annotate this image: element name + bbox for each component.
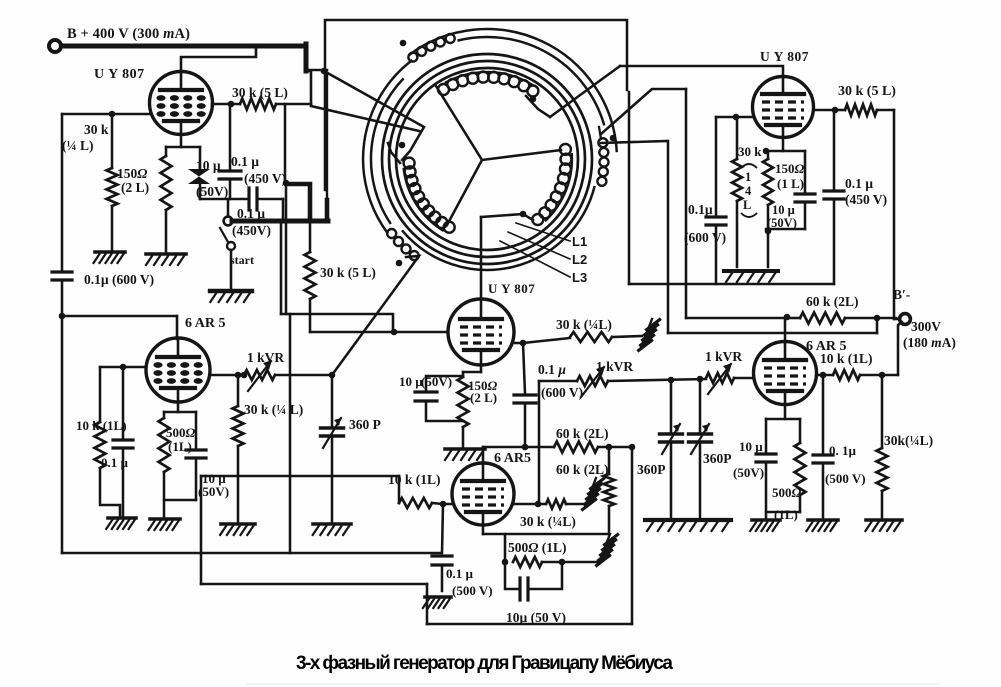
wire VR1 to junction xyxy=(275,374,332,377)
node R8 right xyxy=(874,315,881,322)
svg-text:0.1µ (600 V): 0.1µ (600 V) xyxy=(84,272,154,287)
ground G4 xyxy=(106,518,136,529)
spoke to L1 xyxy=(436,86,482,160)
node T5 grid xyxy=(440,501,447,508)
svg-text:B′-: B′- xyxy=(893,287,910,302)
svg-text:L3: L3 xyxy=(572,270,587,285)
label B+400V xyxy=(67,26,190,42)
resistor R2 30k quarterL xyxy=(107,114,118,251)
toroid outer arc top2 xyxy=(458,37,605,125)
wire T5 top pin xyxy=(482,447,485,463)
label C21 xyxy=(506,610,566,625)
label R10 xyxy=(820,351,873,366)
label C15 500V xyxy=(825,471,866,486)
svg-text:4: 4 xyxy=(745,184,752,198)
label C20a xyxy=(538,362,566,377)
label C11 value xyxy=(845,176,873,191)
svg-text:300V: 300V xyxy=(911,319,941,334)
resistor R21 500ohm 1L xyxy=(513,557,600,567)
svg-text:3-х фазный генератор для Грави: 3-х фазный генератор для Гравицапу Мёбиу… xyxy=(296,653,673,674)
svg-text:150Ω: 150Ω xyxy=(775,161,805,176)
label R5 q1 xyxy=(745,170,751,184)
node Lc dot xyxy=(396,260,403,267)
wire y624 xyxy=(427,623,632,626)
label C17a xyxy=(202,471,226,486)
label C2 450V xyxy=(244,171,286,186)
node grid T2 xyxy=(391,329,398,336)
label C9 600V xyxy=(684,230,726,245)
wire bus up to d1 xyxy=(325,73,330,221)
label L2 xyxy=(572,252,587,267)
label C19 xyxy=(399,374,452,389)
node grid T1 xyxy=(109,111,116,118)
label VR2 xyxy=(596,359,633,374)
svg-text:30 k (5 L): 30 k (5 L) xyxy=(838,84,896,99)
capacitor C17 10u xyxy=(164,412,206,500)
svg-text:0.1 µ: 0.1 µ xyxy=(231,154,259,169)
svg-text:(2 L): (2 L) xyxy=(121,180,149,195)
capacitor C1 10u electrolytic xyxy=(188,147,210,199)
label C11 450V xyxy=(845,192,887,207)
svg-text:(2 L): (2 L) xyxy=(470,390,497,405)
capacitor C16 0.1u xyxy=(113,367,133,516)
resistor R8 60k2L top xyxy=(787,313,896,324)
node Lb dot xyxy=(610,135,617,142)
label C18 xyxy=(349,417,381,432)
tube U1 UY807 top-left xyxy=(150,72,213,135)
svg-text:360P: 360P xyxy=(703,451,732,466)
node diag dot xyxy=(520,211,527,218)
label C10 10u xyxy=(772,203,795,217)
wire y141 link xyxy=(601,141,668,333)
svg-text:L2: L2 xyxy=(572,252,587,267)
ground G3 start xyxy=(210,291,252,302)
wire x427 xyxy=(426,584,429,624)
spoke to L2 xyxy=(447,160,482,225)
wire T3 top feed xyxy=(550,66,783,117)
coil L2 inner left xyxy=(404,158,455,233)
terminal 300V xyxy=(900,314,911,325)
resistor R16 30k quarter mid xyxy=(523,332,642,343)
wire plate-grid coupling x539 xyxy=(538,381,541,504)
ground G1 xyxy=(94,252,126,263)
capacitor C21 10u50V loop xyxy=(505,562,562,600)
node x632 top xyxy=(629,444,636,451)
label R4 xyxy=(320,265,376,280)
label R2 quarter xyxy=(62,138,94,153)
node R8 left xyxy=(784,314,791,321)
label R6 1L xyxy=(777,176,804,191)
svg-text:(1 L): (1 L) xyxy=(777,176,804,191)
node R11 top xyxy=(879,372,886,379)
box outline xyxy=(325,20,627,190)
wire T4 grid row xyxy=(100,366,146,369)
label 360P right xyxy=(703,451,732,466)
node C12 top xyxy=(668,377,675,384)
wire row y333 xyxy=(668,318,877,333)
svg-text:60 k (2L): 60 k (2L) xyxy=(806,294,859,309)
svg-text:(600 V): (600 V) xyxy=(541,385,583,400)
wire L2 top link xyxy=(388,143,400,163)
label R8 xyxy=(806,294,859,309)
svg-text:6 AR 5: 6 AR 5 xyxy=(185,316,225,331)
resistor R12 10k1L xyxy=(95,367,121,516)
coil Lb outer right xyxy=(597,127,608,186)
svg-text:B + 400 V (300 mA): B + 400 V (300 mA) xyxy=(67,26,190,42)
caption xyxy=(296,653,673,674)
label 360P left xyxy=(637,462,666,477)
tube U2 UY807 center xyxy=(448,299,514,365)
label R16 xyxy=(556,317,612,332)
node R7 left xyxy=(832,107,839,114)
node VR1 left xyxy=(241,372,248,379)
ground G7 xyxy=(313,524,351,535)
scan edge bottom xyxy=(245,683,940,685)
ground G14 xyxy=(807,520,839,531)
node R6 bottom xyxy=(765,228,772,235)
svg-text:0.1 µ: 0.1 µ xyxy=(538,362,566,377)
wire rail x686 xyxy=(685,89,688,318)
label R12 xyxy=(76,418,127,433)
resistor R10 10k1L xyxy=(833,370,898,380)
svg-text:0.1 µ: 0.1 µ xyxy=(101,455,129,470)
svg-text:500Ω: 500Ω xyxy=(166,425,196,440)
label 300V xyxy=(911,319,941,334)
wire left rail x62 upper xyxy=(61,114,64,272)
svg-text:360 P: 360 P xyxy=(349,417,381,432)
toroid outer arc top xyxy=(409,29,617,152)
wire T2 plate xyxy=(515,342,523,345)
varres VR2 1kVR xyxy=(577,366,608,397)
svg-text:(50V): (50V) xyxy=(767,216,797,230)
svg-text:(50V): (50V) xyxy=(196,184,228,199)
label C15 value xyxy=(829,443,857,458)
capacitor C2 0.1u450V xyxy=(219,104,241,199)
label R9 500 xyxy=(772,485,802,500)
node plate T2 xyxy=(520,340,527,347)
svg-text:1 kVR: 1 kVR xyxy=(247,350,284,365)
node R14 top xyxy=(235,372,242,379)
wire b2 winding right link xyxy=(601,89,686,134)
capacitor C15 0.1u500V xyxy=(813,375,833,518)
svg-text:U Y 807: U Y 807 xyxy=(488,281,535,296)
toroid ring1 xyxy=(382,54,592,264)
svg-text:10 k (1L): 10 k (1L) xyxy=(820,351,873,366)
wire grid row T1 xyxy=(62,113,150,116)
capacitor C13 360P b xyxy=(689,379,712,518)
svg-text:start: start xyxy=(230,253,254,267)
label R18 xyxy=(556,462,609,477)
svg-text:(50V): (50V) xyxy=(421,374,452,389)
svg-text:150Ω: 150Ω xyxy=(117,166,147,181)
resistor R17 60k2L h xyxy=(483,442,632,453)
svg-text:10µ (50 V): 10µ (50 V) xyxy=(506,610,566,625)
wire T5 cathode row xyxy=(483,525,609,534)
label R5 q2 xyxy=(745,184,752,198)
label R7 xyxy=(838,84,896,99)
wire rail x629 xyxy=(628,92,631,284)
resistor R11 30k quarter right xyxy=(877,375,888,518)
toroid ring3 xyxy=(396,68,578,250)
label VR1 xyxy=(247,350,284,365)
sground S1 xyxy=(639,319,660,350)
label C22b xyxy=(452,583,493,598)
ground G16 wide xyxy=(724,271,778,282)
label C1 10u xyxy=(196,158,221,173)
label C14 50V xyxy=(733,465,764,480)
label R13a xyxy=(166,425,196,440)
label R19 xyxy=(388,472,441,487)
node VR3 left xyxy=(697,376,704,383)
svg-text:0.1µ: 0.1µ xyxy=(688,202,713,217)
capacitor C9 0.1u600V right xyxy=(706,117,726,284)
label U2 UY807 xyxy=(488,281,535,296)
node L2 top xyxy=(399,142,406,149)
resistor R19 10k1L bottom xyxy=(399,476,443,508)
svg-text:(600 V): (600 V) xyxy=(684,230,726,245)
wire T2 grid row xyxy=(310,331,448,334)
resistor R14 30k quarter xyxy=(233,375,244,522)
wire T2 cathode xyxy=(463,365,481,372)
node plate T6 xyxy=(820,372,827,379)
label R13b xyxy=(168,439,192,454)
wire heavy diagonal to 1kVR xyxy=(332,256,419,375)
wire T5 grid xyxy=(443,503,452,506)
node T3 cathode xyxy=(763,148,770,155)
varres VR1 1kVR xyxy=(244,360,275,391)
label C1 50V xyxy=(196,184,228,199)
switch start xyxy=(220,199,235,289)
resistor R15 150ohm 2L xyxy=(458,372,469,447)
leader L1 xyxy=(516,223,570,241)
sground S2 xyxy=(583,478,604,509)
svg-text:(500 V): (500 V) xyxy=(825,471,866,486)
wire 500ohm row xyxy=(504,534,507,562)
label C16 xyxy=(101,455,129,470)
svg-text:6 AR5: 6 AR5 xyxy=(494,451,531,466)
terminal B+ xyxy=(49,40,61,52)
wire rail x286 xyxy=(284,104,287,183)
svg-text:30 k (5 L): 30 k (5 L) xyxy=(320,265,376,280)
svg-text:30 k (¼L): 30 k (¼L) xyxy=(520,514,576,529)
resistor R7 30k5L right xyxy=(814,105,894,116)
svg-text:10 µ: 10 µ xyxy=(739,439,763,454)
toroid outer arc left2 xyxy=(371,78,404,224)
label R6 150 xyxy=(775,161,805,176)
svg-text:(450 V): (450 V) xyxy=(244,171,286,186)
wire T3 cathode xyxy=(766,138,805,151)
capacitor C22 0.1u500V xyxy=(432,504,452,591)
label L1 xyxy=(572,234,587,249)
wire x632 xyxy=(631,447,634,624)
resistor R4 30k5L vertical xyxy=(305,221,316,332)
svg-text:30 k: 30 k xyxy=(84,122,109,137)
ground G15 xyxy=(865,520,902,531)
wire B+ elbow to plate rail xyxy=(306,71,311,104)
svg-text:500Ω: 500Ω xyxy=(772,485,802,500)
wire heavy bus elbow xyxy=(287,184,310,221)
wire up to 300V xyxy=(898,322,902,375)
wire d1 diagonal xyxy=(324,71,424,160)
svg-text:(180 mA): (180 mA) xyxy=(903,335,956,350)
wire T2 pin to toroid xyxy=(481,214,533,299)
wire T6 cathode xyxy=(766,404,800,419)
svg-text:(500 V): (500 V) xyxy=(452,583,493,598)
node C20 bottom xyxy=(522,444,529,451)
wire B- rail xyxy=(894,110,899,319)
wire 1kVR row left xyxy=(539,380,577,383)
label U4 6AR5 xyxy=(185,316,225,331)
node x286 y183 xyxy=(283,180,290,187)
wire row y314 xyxy=(281,314,393,332)
label R15b xyxy=(470,390,497,405)
ground G8 xyxy=(445,449,485,460)
svg-text:1: 1 xyxy=(745,170,751,184)
svg-text:1 kVR: 1 kVR xyxy=(596,359,633,374)
wire y316 row xyxy=(62,316,177,339)
label C10 50V xyxy=(767,216,797,230)
label C3 450V xyxy=(232,223,271,238)
label U5 6AR5 xyxy=(494,451,531,466)
svg-text:10 µ: 10 µ xyxy=(399,374,423,389)
coil L1 inner top xyxy=(438,72,538,97)
ground G13 xyxy=(750,520,780,531)
wire T4 plate row xyxy=(210,374,244,377)
label R20 xyxy=(520,514,576,529)
wire x201 xyxy=(200,476,203,584)
svg-text:10 µ: 10 µ xyxy=(196,158,221,173)
label C3 value xyxy=(237,206,265,221)
svg-text:10 k (1L): 10 k (1L) xyxy=(76,418,127,433)
svg-text:(450V): (450V) xyxy=(232,223,271,238)
sground S3 xyxy=(597,534,618,565)
svg-text:30 k (¼L): 30 k (¼L) xyxy=(556,317,612,332)
label C20b xyxy=(541,385,583,400)
label U3 UY807 xyxy=(760,49,809,64)
label start xyxy=(230,253,254,267)
wire T6 plate row xyxy=(817,374,833,377)
wire y584 xyxy=(201,583,427,586)
label R11 xyxy=(884,433,933,448)
label R5 parens xyxy=(741,164,757,217)
label C8 xyxy=(84,272,154,287)
svg-text:30 k (5 L): 30 k (5 L) xyxy=(232,85,288,100)
label L3 xyxy=(572,270,587,285)
wire feedback y476 xyxy=(201,475,399,478)
resistor R18 60k2L v xyxy=(604,447,615,534)
node phase top xyxy=(400,40,407,47)
wire rail x281 xyxy=(280,221,283,314)
capacitor C10 10u50V xyxy=(766,151,815,229)
svg-text:L: L xyxy=(743,198,751,212)
label C17b xyxy=(198,484,229,499)
resistor R20 30k small xyxy=(514,500,586,509)
svg-text:U Y 807: U Y 807 xyxy=(94,67,145,82)
label U1 UY807 xyxy=(94,67,145,82)
wire rail x290 long xyxy=(289,314,292,553)
svg-text:0.1 µ: 0.1 µ xyxy=(845,176,873,191)
label R14 xyxy=(244,402,303,417)
wire d2 diagonal xyxy=(311,106,419,131)
tube U6 6AR5 right xyxy=(754,342,817,405)
capacitor C3 0.1u450V coupling xyxy=(200,188,283,219)
wire B- bus y284 xyxy=(629,283,834,286)
svg-text:60 k (2L): 60 k (2L) xyxy=(556,462,609,477)
toroid ring2 xyxy=(389,61,585,257)
node left rail y316 xyxy=(59,313,66,320)
node R20 left xyxy=(535,501,542,508)
label C9 value xyxy=(688,202,713,217)
svg-text:(50V): (50V) xyxy=(733,465,764,480)
wire heavy tank bus xyxy=(232,219,328,224)
svg-text:(¼ L): (¼ L) xyxy=(62,138,94,153)
svg-text:30 k (¼ L): 30 k (¼ L) xyxy=(244,402,303,417)
capacitor C19 10u50V xyxy=(415,376,463,421)
tube U4 6AR5 left xyxy=(146,338,210,402)
resistor R6 150ohm 1L xyxy=(763,152,773,267)
varres VR3 1kVR xyxy=(706,363,734,394)
wire rail x286 lower xyxy=(285,183,288,314)
tube U3 UY807 right xyxy=(753,77,814,138)
spoke to L3 xyxy=(482,150,561,160)
svg-text:60 k (2L): 60 k (2L) xyxy=(556,426,609,441)
node Rb left xyxy=(502,559,509,566)
tube U5 6AR5 bottom xyxy=(452,463,514,525)
svg-text:500Ω (1L): 500Ω (1L) xyxy=(508,540,566,555)
svg-text:0. 1µ: 0. 1µ xyxy=(829,443,857,458)
wire B+ to box xyxy=(306,69,327,72)
toroid outer arc left xyxy=(363,60,412,234)
node Rb right xyxy=(559,559,566,566)
svg-text:10 k (1L): 10 k (1L) xyxy=(388,472,441,487)
svg-text:L1: L1 xyxy=(572,234,587,249)
svg-text:(1L): (1L) xyxy=(168,439,192,454)
label R5 30k xyxy=(738,144,762,159)
label C22a xyxy=(446,566,474,581)
capacitor C12 360P a xyxy=(660,380,683,518)
capacitor C11 0.1u450V right xyxy=(824,110,844,284)
label R21 xyxy=(508,540,566,555)
label R5 q3 xyxy=(743,198,751,212)
svg-text:U Y 807: U Y 807 xyxy=(760,49,809,64)
wire VR2 to VR3 xyxy=(608,379,706,381)
node R17 right xyxy=(606,444,613,451)
label 180mA xyxy=(903,335,956,350)
capacitor C8 0.1u600V left xyxy=(52,272,72,553)
coil L3 inner right xyxy=(532,144,572,225)
wire top pin feed T1 xyxy=(181,46,256,72)
label U6 6AR5 xyxy=(806,339,846,354)
ground G5 xyxy=(149,519,181,530)
ground G2 xyxy=(146,254,186,265)
svg-text:(50V): (50V) xyxy=(198,484,229,499)
label B- xyxy=(893,287,910,302)
svg-text:1 kVR: 1 kVR xyxy=(705,349,742,364)
wire B+ bus heavy xyxy=(62,44,306,71)
ground G10 xyxy=(423,597,451,608)
capacitor C18 360P xyxy=(321,375,344,522)
wire row y318 xyxy=(686,317,787,320)
label R9 1L xyxy=(774,507,798,522)
svg-text:10 µ: 10 µ xyxy=(772,203,795,217)
label C14 10u xyxy=(739,439,763,454)
coil La outer topleft xyxy=(408,34,454,62)
ground G6 xyxy=(220,524,255,535)
label VR3 xyxy=(705,349,742,364)
node T4 grid xyxy=(120,364,127,371)
label R3 2L xyxy=(121,180,149,195)
leader L2 xyxy=(508,232,570,259)
